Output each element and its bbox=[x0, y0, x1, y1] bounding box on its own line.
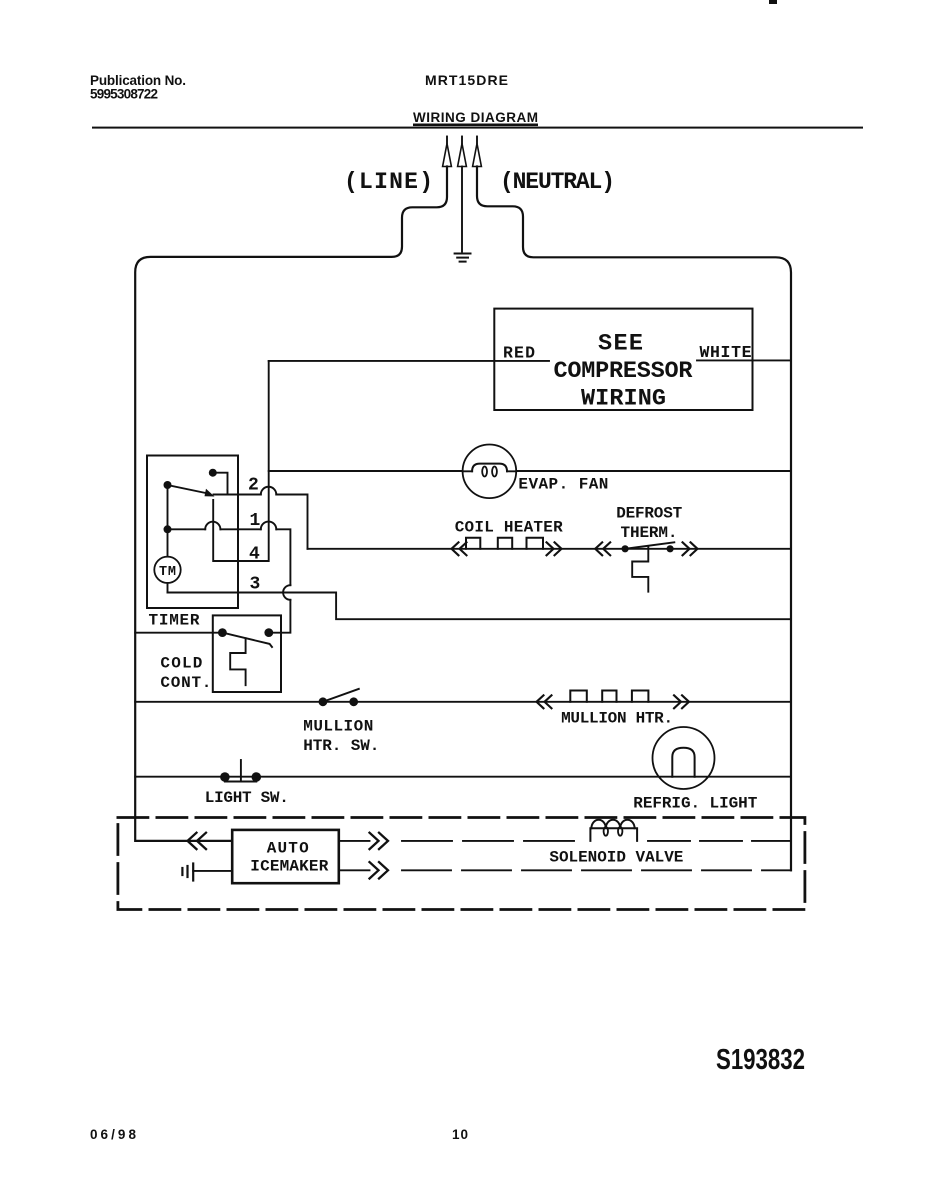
evap fan motor circle bbox=[463, 445, 517, 499]
mullion row wire bbox=[135, 701, 791, 703]
refrigerator light filament bbox=[672, 748, 694, 777]
svg-text:MULLION: MULLION bbox=[303, 718, 373, 736]
cold control switch blade bbox=[222, 633, 272, 647]
svg-text:HTR. SW.: HTR. SW. bbox=[303, 737, 379, 755]
svg-text:REFRIG. LIGHT: REFRIG. LIGHT bbox=[633, 795, 757, 813]
page corner tick bbox=[769, 0, 777, 4]
svg-text:DEFROST: DEFROST bbox=[616, 505, 682, 523]
dashed wire solenoid to right edge bbox=[648, 840, 791, 842]
svg-text:10: 10 bbox=[452, 1127, 468, 1142]
header rule bbox=[92, 127, 863, 129]
svg-text:MULLION HTR.: MULLION HTR. bbox=[561, 710, 673, 728]
wire neutral prong to enclosure right edge bbox=[477, 167, 791, 871]
hump contact1 wire over main vertical bbox=[261, 522, 277, 530]
svg-text:LIGHT SW.: LIGHT SW. bbox=[205, 789, 289, 807]
wire timer terminal 3 to right edge bbox=[168, 593, 792, 620]
connector chevrons left of mullion heater bbox=[537, 695, 552, 708]
svg-text:(LINE): (LINE) bbox=[344, 169, 433, 195]
svg-text:TM: TM bbox=[159, 565, 176, 580]
cold control left contact dot bbox=[218, 628, 227, 637]
svg-text:ICEMAKER: ICEMAKER bbox=[250, 858, 328, 876]
svg-text:(NEUTRAL): (NEUTRAL) bbox=[500, 169, 615, 195]
connector chevrons icemaker feed bbox=[188, 833, 207, 849]
svg-text:WIRING: WIRING bbox=[581, 386, 666, 413]
svg-text:5995308722: 5995308722 bbox=[90, 87, 158, 102]
svg-text:COLD: COLD bbox=[160, 655, 202, 673]
connector chevrons icemaker out top bbox=[370, 833, 389, 849]
wire timer pivot B down to C bbox=[167, 485, 169, 529]
connector chevrons right of mullion heater bbox=[674, 695, 689, 708]
title underline bbox=[413, 124, 538, 127]
svg-text:4: 4 bbox=[249, 545, 260, 565]
light switch left dot bbox=[220, 772, 230, 782]
mullion switch right dot bbox=[349, 697, 358, 706]
svg-text:WHITE: WHITE bbox=[700, 343, 752, 362]
wire icemaker out bottom bbox=[339, 869, 370, 871]
wire line prong to enclosure left edge and bottom icemaker feed bbox=[135, 167, 447, 841]
light switch right dot bbox=[251, 772, 261, 782]
evap fan winding loops bbox=[482, 467, 487, 477]
evap fan winding symbol bbox=[463, 470, 517, 472]
svg-text:RED: RED bbox=[503, 344, 535, 363]
ground symbol bbox=[455, 254, 471, 262]
light switch bridge bbox=[225, 781, 256, 783]
svg-text:WIRING DIAGRAM: WIRING DIAGRAM bbox=[413, 110, 538, 125]
svg-text:CONT.: CONT. bbox=[160, 674, 211, 692]
light switch row wire bbox=[135, 776, 791, 778]
svg-text:3: 3 bbox=[250, 574, 261, 594]
wire red to compressor bbox=[269, 360, 549, 362]
connector chevrons icemaker out bottom bbox=[370, 862, 389, 878]
svg-text:S193832: S193832 bbox=[716, 1044, 805, 1076]
wire compressor white to right edge bbox=[697, 359, 791, 361]
wire dot A jog to contact 2 bbox=[213, 473, 228, 495]
evap fan row wire bbox=[269, 470, 791, 472]
svg-text:THERM.: THERM. bbox=[621, 524, 678, 542]
hump contact2 wire over vertical bbox=[261, 487, 277, 495]
timer switch blade B with arrowhead bbox=[168, 485, 210, 494]
dashed return wire to right edge bbox=[402, 869, 791, 871]
mullion switch blade bbox=[323, 689, 359, 702]
plug prong arrow left bbox=[443, 137, 452, 167]
mullion switch left dot bbox=[319, 697, 328, 706]
timer motor TM circle bbox=[154, 557, 180, 583]
timer box bbox=[147, 456, 238, 609]
dashed wire to solenoid valve bbox=[402, 840, 583, 842]
solenoid valve coil bbox=[590, 828, 637, 841]
defrost therm switch blade bbox=[625, 542, 674, 549]
auto icemaker box bbox=[232, 830, 339, 883]
connector chevrons left of defrost therm bbox=[595, 542, 610, 555]
icemaker ground symbol bbox=[182, 864, 193, 881]
svg-text:2: 2 bbox=[248, 476, 259, 496]
defrost therm bimetal element bbox=[632, 546, 648, 592]
svg-text:1: 1 bbox=[250, 511, 261, 531]
wire ground prong stem bbox=[461, 167, 463, 252]
svg-text:SOLENOID VALVE: SOLENOID VALVE bbox=[549, 849, 683, 867]
wire timer contact 1 to cold control bbox=[168, 529, 291, 632]
svg-text:EVAP. FAN: EVAP. FAN bbox=[518, 476, 608, 494]
cold control right contact dot bbox=[264, 628, 273, 637]
plug prong arrow middle bbox=[458, 137, 467, 167]
svg-text:COIL HEATER: COIL HEATER bbox=[455, 519, 563, 537]
mullion heater resistor bbox=[570, 691, 648, 702]
wire icemaker out top bbox=[339, 840, 370, 842]
svg-text:COMPRESSOR: COMPRESSOR bbox=[554, 358, 694, 385]
coil heater resistor bbox=[466, 538, 543, 549]
plug prong arrow right bbox=[473, 137, 482, 167]
wire main vertical red feed down to timer contact 4 bbox=[213, 361, 269, 561]
timer contact dot A bbox=[209, 469, 217, 477]
dashed icemaker enclosure box bbox=[118, 818, 805, 910]
connector chevrons right of coil heater bbox=[547, 542, 562, 555]
wire dot C to TM bbox=[167, 529, 169, 556]
timer contact dot B pivot bbox=[164, 481, 172, 489]
wire ground to icemaker bbox=[193, 870, 232, 872]
cold control box bbox=[213, 615, 281, 692]
hump contact1 vertical over terminal3 wire bbox=[283, 585, 290, 600]
defrost therm right contact dot bbox=[667, 545, 674, 552]
connector chevrons left of coil heater bbox=[452, 542, 467, 555]
svg-text:MRT15DRE: MRT15DRE bbox=[425, 72, 508, 88]
coil heater row wire bbox=[308, 548, 792, 550]
cold control thermal element bbox=[230, 638, 245, 685]
svg-text:AUTO: AUTO bbox=[267, 840, 309, 858]
hump contact1 wire over blade vertical bbox=[205, 522, 220, 530]
refrigerator light circle bbox=[653, 727, 715, 789]
light switch plunger bbox=[240, 760, 242, 782]
svg-text:TIMER: TIMER bbox=[149, 612, 200, 630]
svg-text:SEE: SEE bbox=[598, 331, 643, 358]
defrost therm left contact dot bbox=[622, 545, 629, 552]
compressor box bbox=[494, 309, 752, 410]
wire TM to terminal 3 row bbox=[167, 583, 169, 593]
connector chevrons right of defrost therm bbox=[683, 542, 698, 555]
wire left edge to cold control bbox=[135, 632, 222, 634]
timer contact dot C bbox=[164, 525, 172, 533]
wire timer contact 2 to coil heater row bbox=[214, 495, 308, 549]
svg-text:06/98: 06/98 bbox=[90, 1127, 136, 1142]
